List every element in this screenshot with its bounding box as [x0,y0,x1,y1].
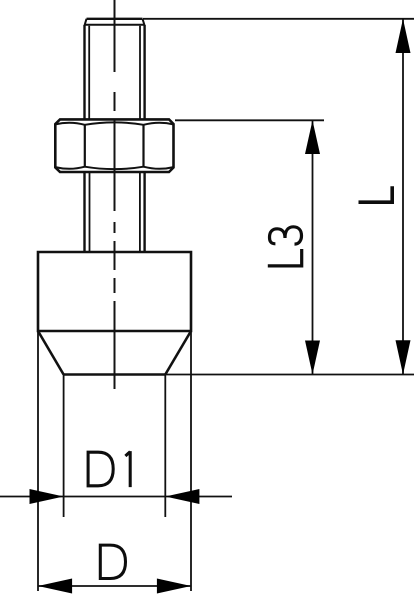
dimension D left arrowhead [38,579,72,594]
label D [100,545,125,578]
threaded stud: inner (minor dia) thread lines, upper part [89,26,140,120]
dimension D1 right arrowhead [165,489,199,504]
cylindrical body [38,252,191,331]
wire: D1 extension line left [63,375,65,518]
dimension D line [38,585,191,587]
wire: D extension line left [37,331,39,591]
threaded stud: top chamfer right [143,19,145,26]
wire: top extension line for L [143,18,414,20]
hex nut chamfer arcs bottom [55,167,173,169]
dimension L3 top arrowhead [305,120,320,154]
centerline (vertical axis, dash-dot) [114,0,116,389]
threaded stud: chamfer bottom line [85,24,145,26]
cone bottom face [64,373,166,376]
threaded stud: outer lines, lower part (nut to body) [85,172,145,252]
dimension L3 bottom arrowhead [305,341,320,375]
wire: D1 extension line right [164,375,166,518]
threaded stud: top face [87,18,143,20]
threaded stud: top chamfer left [85,19,87,26]
dimension D1 left arrowhead [30,489,64,504]
hex nut face divider left [84,125,86,167]
cone taper right [165,331,191,375]
hex nut silhouette [55,119,173,172]
cone taper left [38,331,64,375]
dimension L top arrowhead [396,19,411,53]
wire: bottom extension line for L / L3 [165,374,414,376]
threaded stud: outer (major dia) lines, upper part [85,25,145,119]
dimension D right arrowhead [157,579,191,594]
label L [359,186,393,202]
hex nut face divider right [142,125,144,167]
dimension D1 line [0,496,232,498]
threaded stud: inner thread lines, lower part [90,172,140,252]
label L3 [268,227,302,266]
dimension L bottom arrowhead [396,340,411,374]
wire: D extension line right [190,331,192,591]
label D1 [88,451,130,487]
dimension L line [402,19,404,375]
wire: extension line from nut top for L3 [175,119,324,121]
hex nut chamfer arcs top [55,122,173,124]
dimension L3 line [312,120,314,374]
